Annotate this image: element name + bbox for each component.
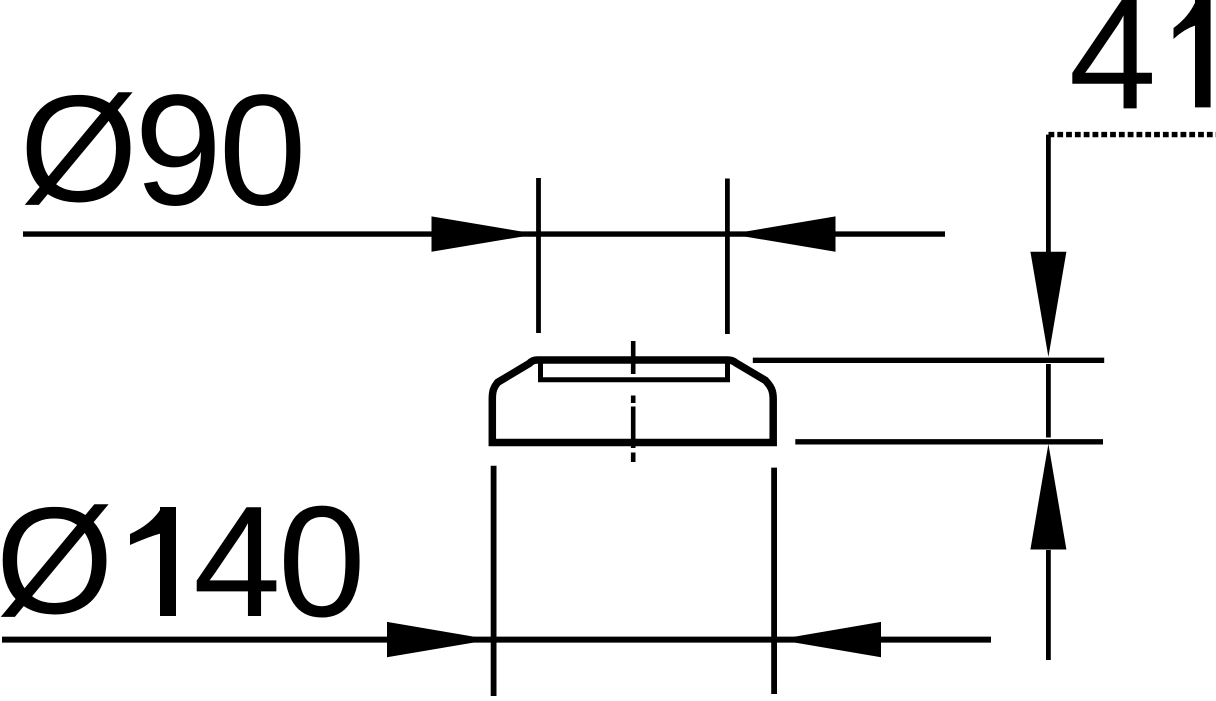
dimension line Ø140 xyxy=(2,637,991,643)
svg-text:4: 4 xyxy=(1069,0,1157,142)
arrowhead Ø90 right (points left) xyxy=(731,216,836,251)
svg-text:9: 9 xyxy=(134,63,222,239)
arrowhead Ø90 left (points right) xyxy=(432,216,538,251)
extension line Ø140 left xyxy=(491,466,497,696)
svg-text:0: 0 xyxy=(278,474,366,650)
leader 41 vertical dashed upper xyxy=(1046,135,1051,252)
part outline (cap cross-section) xyxy=(492,360,773,443)
arrowhead 41 down xyxy=(1030,252,1066,357)
arrowhead 41 up xyxy=(1030,444,1066,550)
arrowhead Ø140 left (points right) xyxy=(387,622,491,657)
label Ø90 xyxy=(20,63,307,239)
svg-text:Ø: Ø xyxy=(20,64,138,234)
leader 41 vertical dashed lower tail xyxy=(1046,550,1051,660)
extension line Ø90 right xyxy=(725,179,730,335)
label 41 xyxy=(1069,0,1211,142)
svg-text:4: 4 xyxy=(193,474,281,650)
leader 41 vertical dashed middle xyxy=(1046,364,1051,438)
extension line Ø90 left xyxy=(536,178,541,333)
svg-text:Ø: Ø xyxy=(0,476,114,646)
leader 41 horizontal dashed xyxy=(1049,132,1216,137)
label Ø140 xyxy=(0,474,366,650)
part inner recess lip xyxy=(541,362,728,380)
centerline dash-dot xyxy=(631,341,636,374)
reference line 41 top xyxy=(753,358,1104,363)
arrowhead Ø140 right (points left) xyxy=(778,622,882,657)
reference line 41 bottom xyxy=(795,439,1103,444)
extension line Ø140 right xyxy=(771,468,777,694)
svg-text:0: 0 xyxy=(219,63,307,239)
dimension line Ø90 xyxy=(23,231,945,236)
